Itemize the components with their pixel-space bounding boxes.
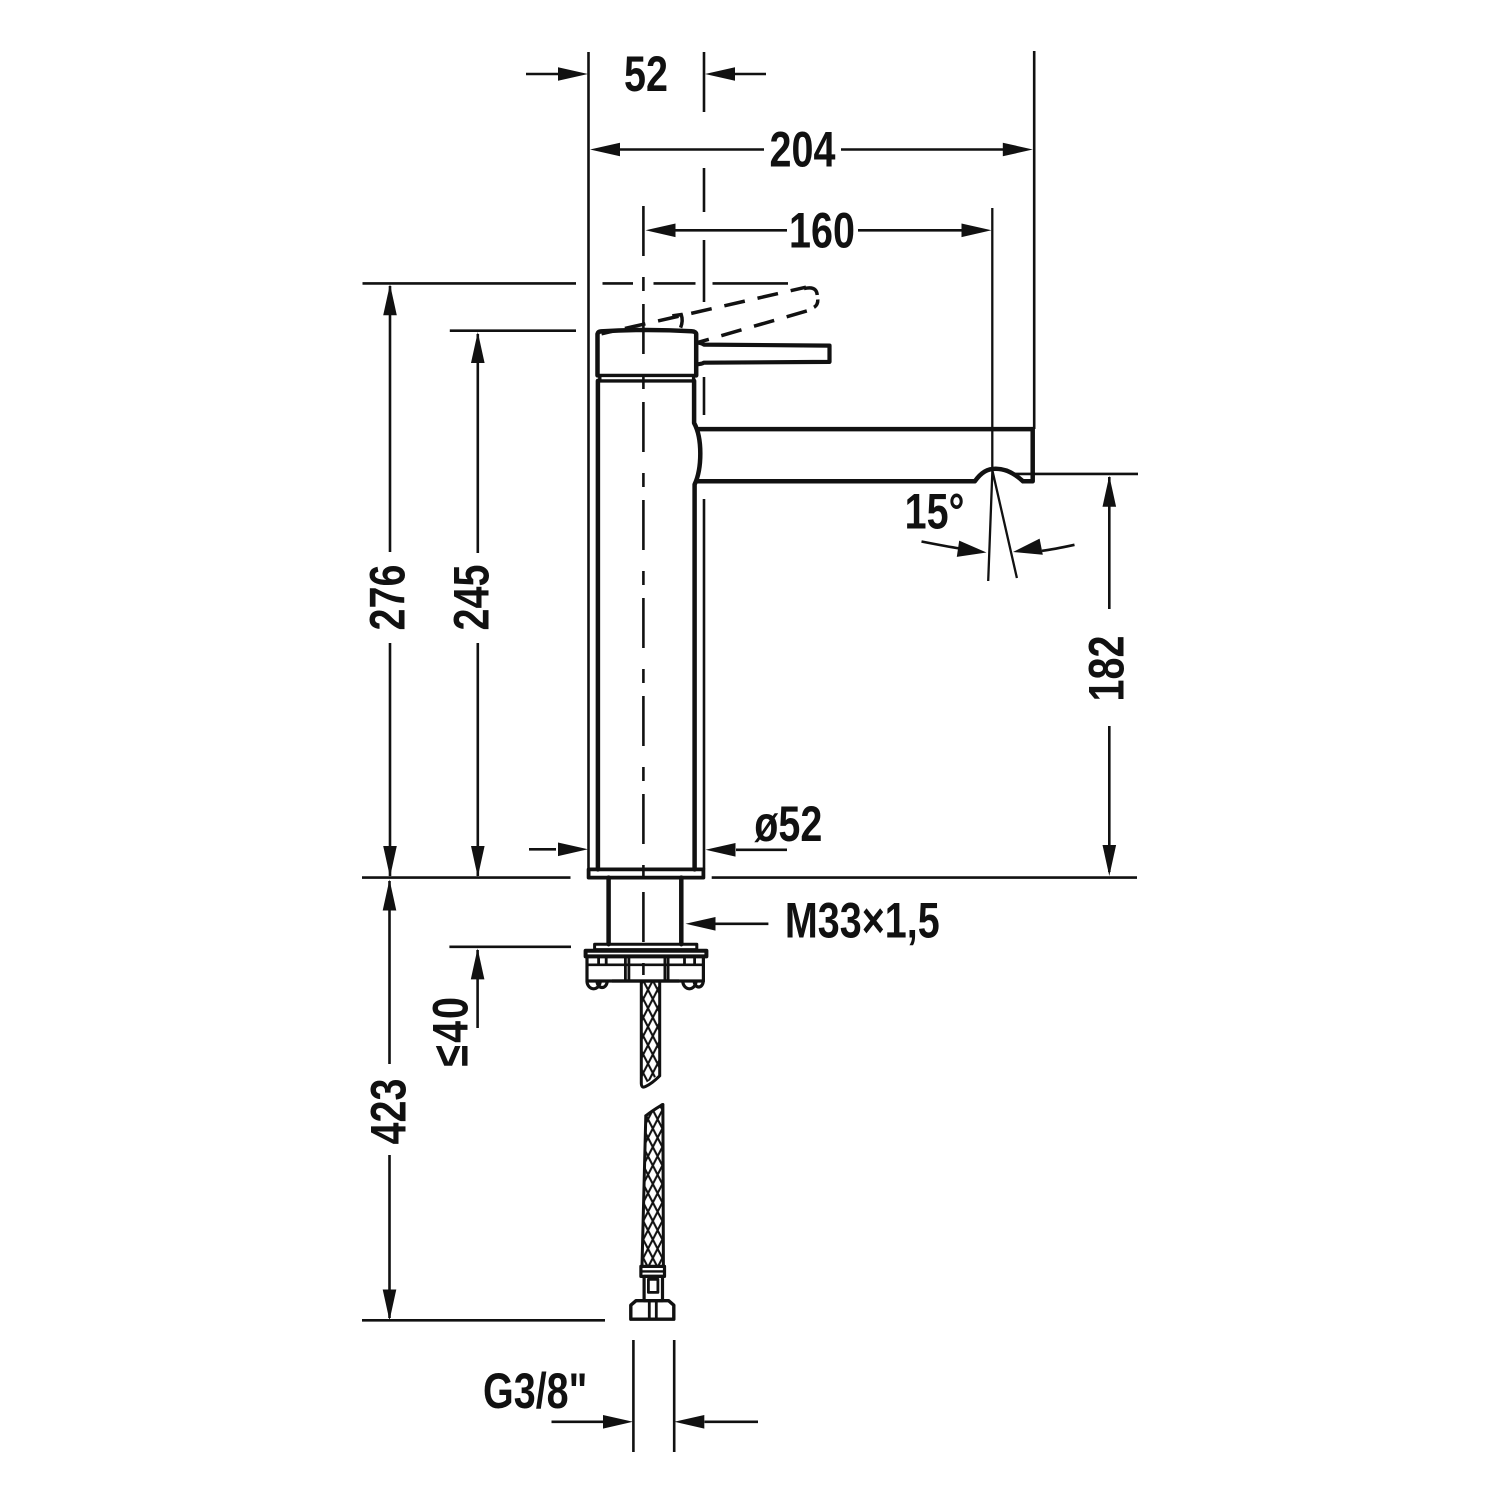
svg-text:52: 52 <box>624 46 668 103</box>
svg-text:204: 204 <box>770 121 836 178</box>
svg-text:160: 160 <box>789 202 855 259</box>
svg-text:15°: 15° <box>905 483 965 540</box>
svg-text:423: 423 <box>360 1079 417 1145</box>
svg-text:276: 276 <box>359 565 416 631</box>
svg-text:182: 182 <box>1078 636 1135 702</box>
svg-text:≤40: ≤40 <box>422 995 479 1067</box>
svg-text:G3/8": G3/8" <box>483 1362 587 1419</box>
svg-text:M33×1,5: M33×1,5 <box>785 892 940 949</box>
svg-text:245: 245 <box>443 565 500 631</box>
svg-text:ø52: ø52 <box>754 796 822 853</box>
